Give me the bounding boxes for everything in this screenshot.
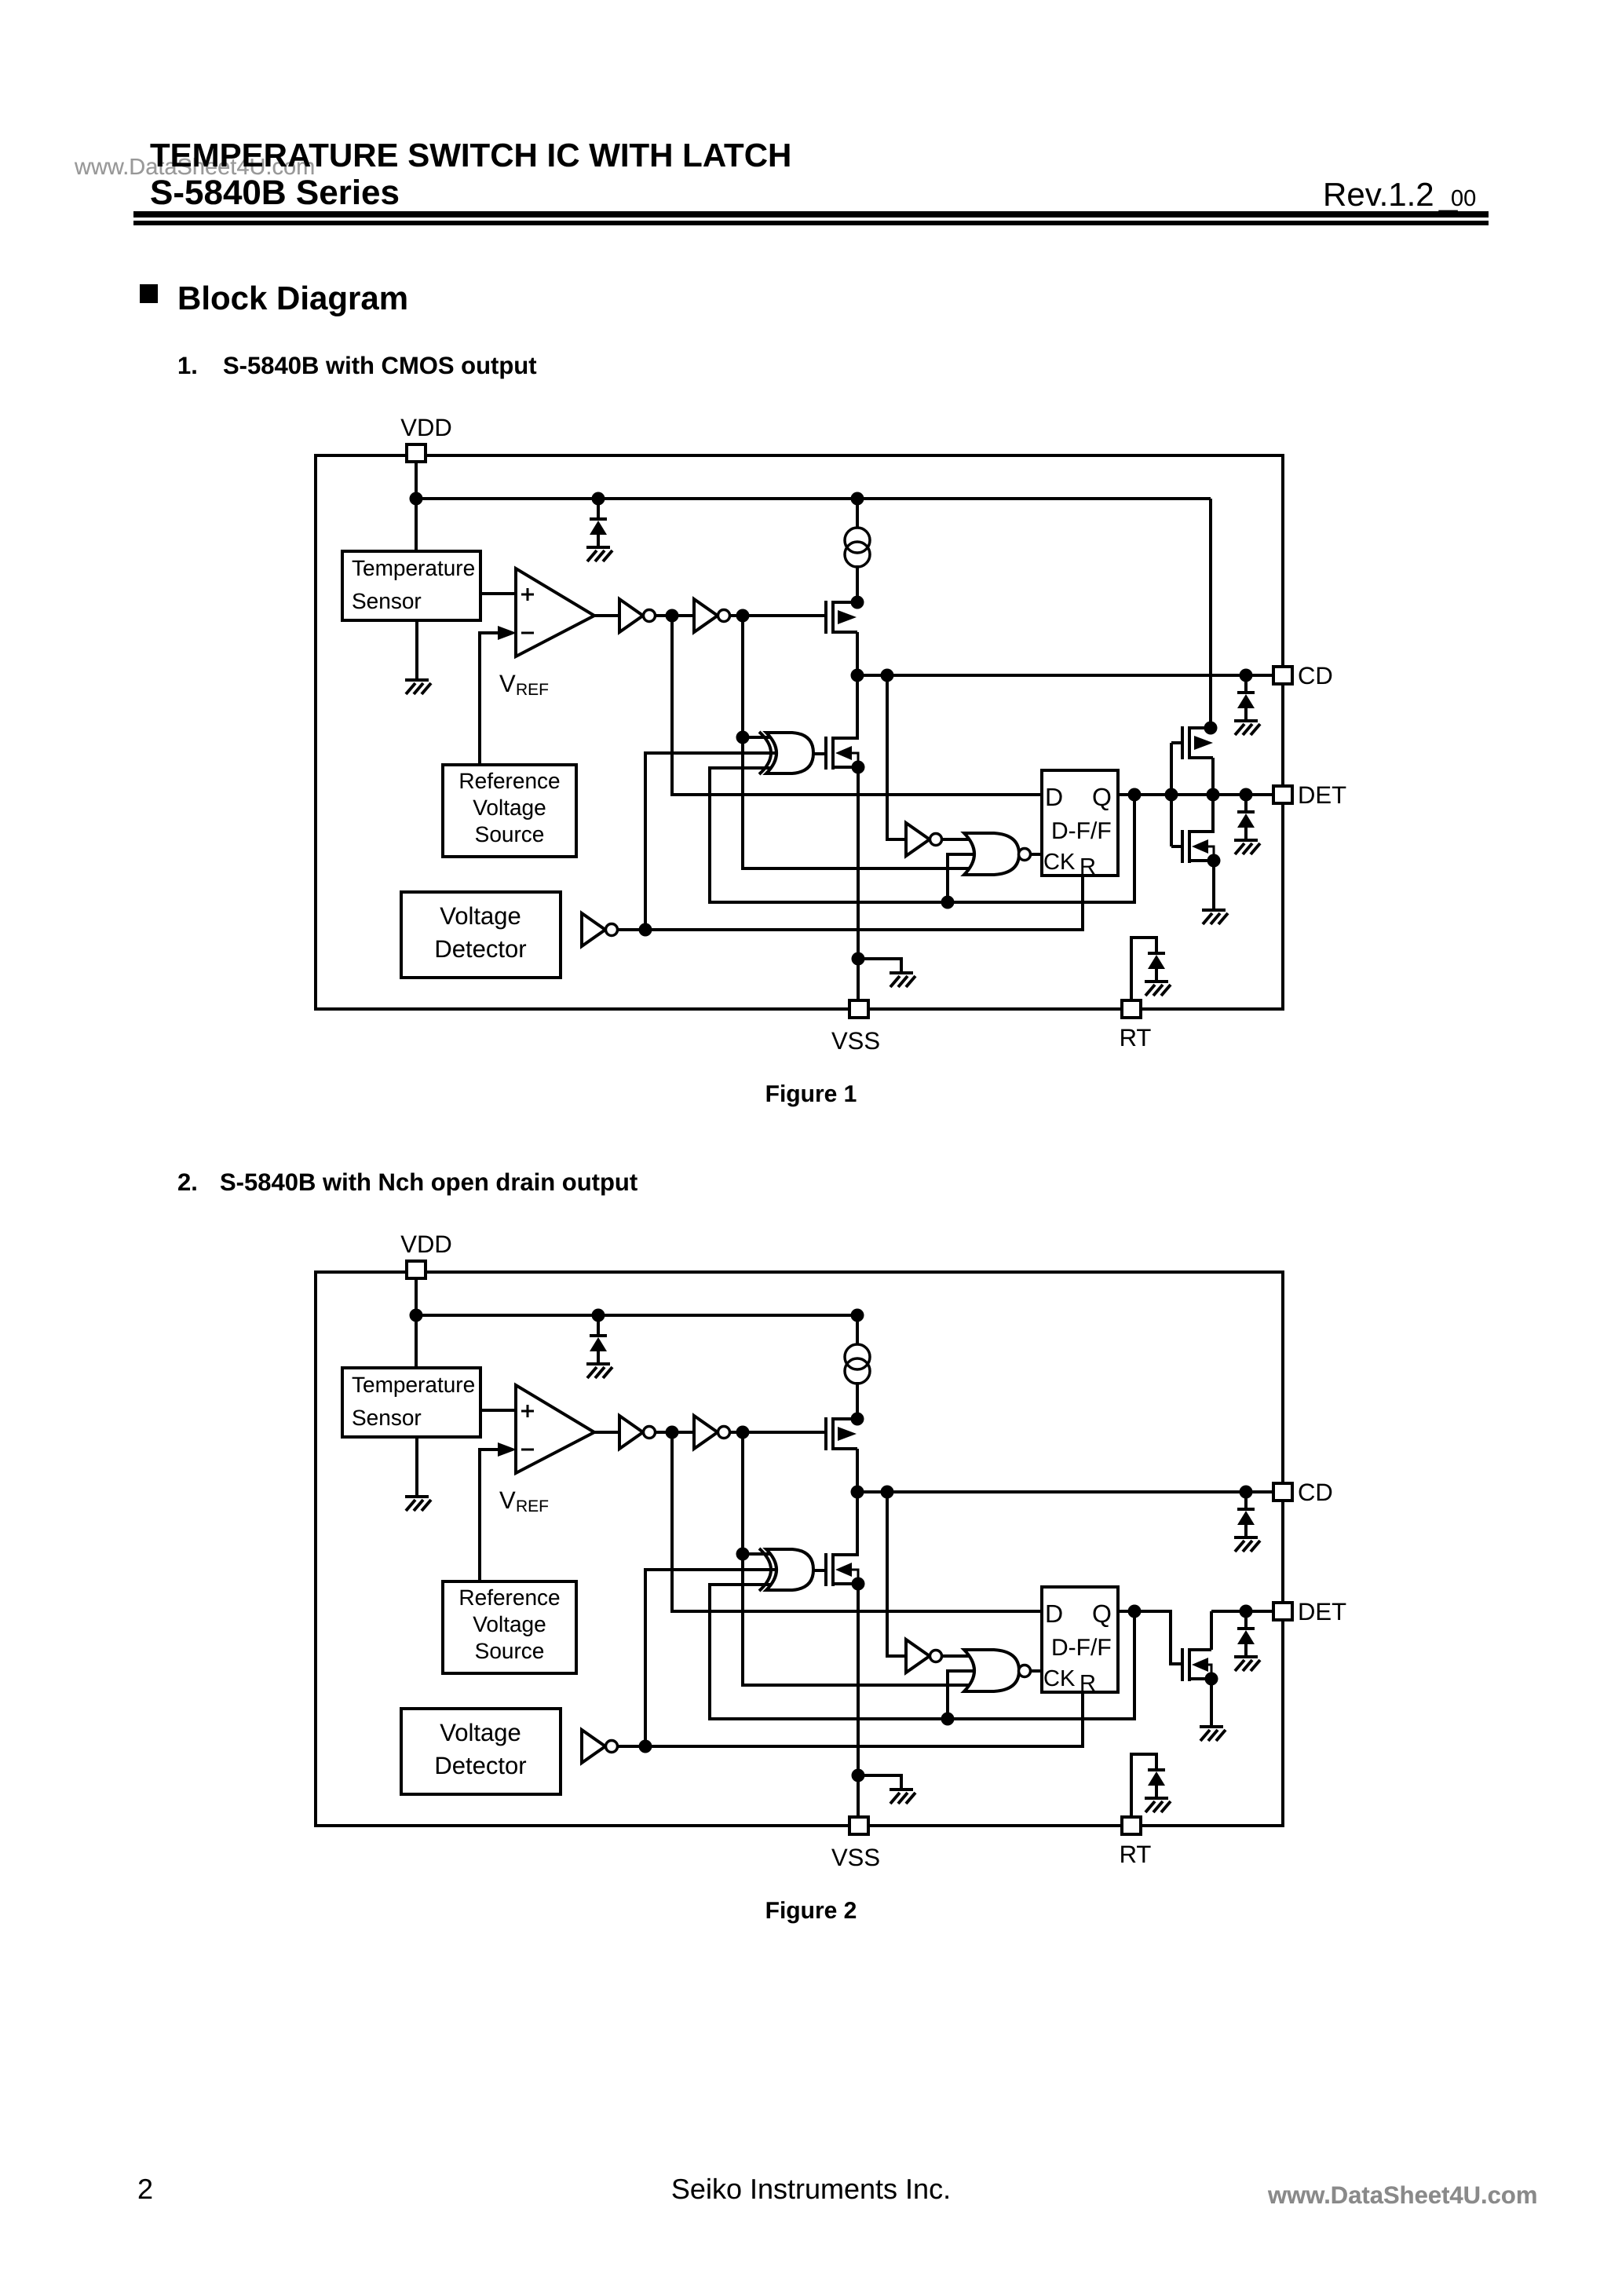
junction Q output feedback tap Fig.2 <box>1128 1605 1142 1618</box>
terminal DET Fig.1 <box>1273 786 1292 803</box>
svg-text:www.DataSheet4U.com: www.DataSheet4U.com <box>1267 2181 1537 2209</box>
inverter 1 Fig.1 <box>619 599 643 632</box>
svg-text:Detector: Detector <box>434 935 526 963</box>
svg-text:Voltage: Voltage <box>440 902 521 930</box>
junction Nch source body tie Fig.2 <box>852 1578 865 1591</box>
wire rail to current source Fig.2 <box>856 1315 859 1344</box>
svg-text:TEMPERATURE SWITCH IC WITH LAT: TEMPERATURE SWITCH IC WITH LATCH <box>150 137 791 174</box>
svg-text:Figure 1: Figure 1 <box>765 1081 857 1107</box>
CD protection diode Fig.1 <box>1237 691 1255 694</box>
wire XOR output to Nch gate Fig.1 <box>813 752 827 755</box>
svg-text:Sensor: Sensor <box>352 1406 422 1430</box>
svg-text:Voltage: Voltage <box>440 1719 521 1746</box>
Nch transistor (latch) Fig.2 <box>835 1553 857 1556</box>
svg-text:Rev.1.2: Rev.1.2 <box>1323 176 1434 213</box>
output Pch transistor Fig.1 <box>1191 726 1211 729</box>
svg-text:D: D <box>1045 783 1063 811</box>
XOR gate Fig.1 <box>759 732 771 774</box>
junction VDD stem to rail Fig.2 <box>410 1309 423 1322</box>
temperature sensor block Fig.1 <box>342 551 480 620</box>
wire node B down to inverter3 Fig.2 <box>887 1492 906 1656</box>
wire output Nch source to ground Fig.1 <box>1212 861 1215 910</box>
wire Nch source down to VSS Fig.2 <box>857 1583 860 1819</box>
comparator Fig.1 <box>516 569 594 656</box>
junction output gate tie Fig.1 <box>1165 788 1178 802</box>
wire temperature sensor ground stem Fig.2 <box>415 1437 418 1498</box>
svg-text:VSS: VSS <box>831 1844 880 1871</box>
current source Fig.2 <box>845 1344 870 1369</box>
svg-text:Temperature: Temperature <box>352 1373 475 1397</box>
inverter 1 Fig.2 <box>619 1416 643 1449</box>
voltage detector block Fig.2 <box>401 1709 561 1794</box>
wire voltage detector inverter to R input Fig.2 <box>616 1694 1083 1746</box>
output Nch ground Fig.1 <box>1202 909 1226 912</box>
wire VSS ground tap Fig.1 <box>858 959 901 974</box>
junction open drain source body tie Fig.2 <box>1205 1673 1218 1686</box>
junction rail to ESD diode Fig.2 <box>592 1309 605 1322</box>
junction VSS ground tap Fig.2 <box>852 1769 865 1782</box>
wire inverter2 node down XOR and NOR input Fig.1 <box>743 616 974 868</box>
Vref arrowhead Fig.1 <box>498 626 517 640</box>
wire rail to current source Fig.1 <box>856 499 859 528</box>
wire temperature sensor ground stem Fig.1 <box>415 620 418 682</box>
wire Nch drain up to CD rail Fig.2 <box>856 1492 859 1556</box>
wire DET diode stem Fig.2 <box>1244 1611 1248 1629</box>
comparator Fig.2 <box>516 1385 594 1473</box>
svg-text:2: 2 <box>137 2173 153 2205</box>
wire VDD top rail Fig.2 <box>416 1314 857 1317</box>
ground of VDD rail diode Fig.1 <box>586 546 610 549</box>
wire diode branch Fig.1 <box>597 499 600 519</box>
svg-text:R: R <box>1080 1671 1096 1696</box>
wire voltage detector inverter to R input Fig.1 <box>616 877 1083 930</box>
wire VSS ground tap Fig.2 <box>858 1775 901 1791</box>
VSS internal ground Fig.1 <box>890 971 913 974</box>
svg-text:Voltage: Voltage <box>473 1612 546 1636</box>
wire RT pullup branch Fig.2 <box>1131 1754 1156 1819</box>
wire Pch drain down to CD rail Fig.1 <box>856 632 859 677</box>
ground of CD diode Fig.2 <box>1234 1536 1258 1539</box>
svg-text:D-F/F: D-F/F <box>1051 818 1112 844</box>
junction Pch drain to CD rail Fig.2 <box>851 1486 864 1499</box>
junction inverter2 output node Fig.2 <box>736 1426 750 1439</box>
svg-text:Figure 2: Figure 2 <box>765 1898 857 1924</box>
junction XOR top input tap Fig.2 <box>736 1548 750 1561</box>
svg-text:DET: DET <box>1298 781 1346 809</box>
svg-text:RT: RT <box>1120 1841 1152 1868</box>
ground of RT diode Fig.1 <box>1145 980 1168 983</box>
svg-text:Block Diagram: Block Diagram <box>177 280 408 316</box>
svg-text:VSS: VSS <box>831 1027 880 1055</box>
svg-text:REF: REF <box>516 1497 549 1515</box>
junction rail to current source Fig.1 <box>851 492 864 506</box>
junction VDD stem to rail Fig.1 <box>410 492 423 506</box>
Vref arrowhead Fig.2 <box>498 1442 517 1457</box>
wire Pch drain down to CD rail Fig.2 <box>856 1449 859 1493</box>
temperature sensor ground Fig.2 <box>405 1495 429 1498</box>
junction inverter1 output node Fig.2 <box>666 1426 679 1439</box>
junction rail to current source Fig.2 <box>851 1309 864 1322</box>
svg-text:CD: CD <box>1298 662 1333 689</box>
XOR gate Fig.2 <box>759 1548 771 1591</box>
voltage detector output inverter Fig.2 <box>582 1730 605 1763</box>
wire XOR top input Fig.2 <box>743 1552 779 1556</box>
DET protection diode Fig.2 <box>1237 1627 1255 1630</box>
junction Pch source body tie Fig.1 <box>851 596 864 609</box>
DET protection diode Fig.1 <box>1237 810 1255 813</box>
D flip-flop block Fig.1 <box>1042 770 1118 876</box>
voltage detector output inverter Fig.1 <box>582 913 605 946</box>
wire Nch drain up to CD rail Fig.1 <box>856 675 859 740</box>
svg-text:00: 00 <box>1451 186 1476 211</box>
svg-text:DET: DET <box>1298 1598 1346 1625</box>
wire diode branch Fig.2 <box>597 1315 600 1336</box>
wire Q output Fig.1 <box>1118 793 1274 796</box>
terminal VSS Fig.2 <box>849 1817 868 1834</box>
wire VDD top rail Fig.1 <box>416 497 1211 500</box>
junction inverter1 output node Fig.1 <box>666 609 679 623</box>
wire NOR output to CK Fig.1 <box>1030 853 1042 856</box>
wire Q feedback to XOR bottom input Fig.2 <box>710 1585 1134 1719</box>
inverter 2 Fig.2 <box>694 1416 718 1449</box>
junction CD rail to inverter3 branch Fig.1 <box>881 669 894 682</box>
svg-text:Reference: Reference <box>458 1585 560 1610</box>
svg-text:Temperature: Temperature <box>352 556 475 580</box>
wire CD rail Fig.1 <box>857 674 1274 677</box>
Nch transistor (latch) Fig.1 <box>835 737 857 740</box>
wire inverter2 to Pch gate Fig.1 <box>727 614 827 617</box>
reference voltage source block Fig.2 <box>443 1581 576 1673</box>
inverter 3 Fig.2 <box>906 1640 930 1673</box>
svg-text:CK: CK <box>1043 1666 1076 1691</box>
junction XOR top input tap Fig.1 <box>736 731 750 744</box>
Pch transistor (bias) Fig.1 <box>835 601 857 604</box>
current source Fig.1 <box>845 528 870 553</box>
svg-text:Voltage: Voltage <box>473 795 546 820</box>
wire CD diode stem Fig.1 <box>1244 675 1248 693</box>
wire Q feedback to XOR bottom input Fig.1 <box>710 768 1134 902</box>
IC outline box Fig.1 <box>316 455 1283 1009</box>
terminal VDD Fig.1 <box>407 444 426 462</box>
wire Q output Fig.2 <box>1118 1611 1182 1664</box>
svg-text:CK: CK <box>1043 850 1076 875</box>
svg-text:R: R <box>1080 854 1096 879</box>
wire Nch source down to VSS Fig.1 <box>857 766 860 1002</box>
svg-text:Source: Source <box>475 822 545 846</box>
voltage detector block Fig.1 <box>401 892 561 978</box>
svg-text:S-5840B with CMOS output: S-5840B with CMOS output <box>223 352 537 379</box>
svg-text:VDD: VDD <box>400 1230 451 1258</box>
wire CD diode stem Fig.2 <box>1244 1492 1248 1509</box>
svg-text:Detector: Detector <box>434 1752 526 1779</box>
ground of CD diode Fig.1 <box>1234 719 1258 722</box>
junction Pch drain to CD rail Fig.1 <box>851 669 864 682</box>
wire VDD stem Fig.2 <box>415 1278 418 1369</box>
wire CD rail Fig.2 <box>857 1490 1274 1493</box>
NOR gate Fig.1 <box>964 833 1019 875</box>
wire DET diode stem Fig.1 <box>1244 795 1248 812</box>
output Nch transistor Fig.1 <box>1191 830 1213 833</box>
terminal VDD Fig.2 <box>407 1261 426 1278</box>
svg-text:S-5840B Series: S-5840B Series <box>150 174 400 212</box>
terminal VSS Fig.1 <box>849 1000 868 1018</box>
terminal RT Fig.1 <box>1122 1000 1141 1018</box>
wire current source to Pch transistor Fig.1 <box>856 565 859 604</box>
wire Nch open-drain to DET Fig.2 <box>1211 1610 1274 1613</box>
IC outline box Fig.2 <box>316 1272 1283 1826</box>
wire voltage detector signal to XOR mid input Fig.2 <box>645 1570 779 1746</box>
junction CD rail to inverter3 branch Fig.2 <box>881 1486 894 1499</box>
wire inverter3 to NOR top input Fig.1 <box>942 838 974 841</box>
wire inverter2 node down XOR and NOR input Fig.2 <box>743 1432 974 1685</box>
svg-text:VDD: VDD <box>400 414 451 441</box>
wire inverter2 to Pch gate Fig.2 <box>727 1431 827 1434</box>
wire Vref to comparator - input Fig.2 <box>480 1450 498 1583</box>
junction output drain node Fig.1 <box>1207 788 1220 802</box>
svg-text:Source: Source <box>475 1639 545 1663</box>
reference voltage source block Fig.1 <box>443 765 576 857</box>
wire Vref to comparator - input Fig.1 <box>480 633 498 766</box>
section heading Block Diagram <box>140 284 158 303</box>
open drain Nch transistor Fig.2 <box>1190 1648 1211 1651</box>
junction CD diode tap Fig.2 <box>1240 1486 1253 1499</box>
temperature sensor block Fig.2 <box>342 1368 480 1437</box>
wire node B down to inverter3 Fig.1 <box>887 675 906 839</box>
svg-text:REF: REF <box>516 681 549 699</box>
svg-text:RT: RT <box>1120 1024 1152 1051</box>
temperature sensor ground Fig.1 <box>405 678 429 682</box>
junction rail to ESD diode Fig.1 <box>592 492 605 506</box>
RT diode Fig.1 <box>1148 952 1165 955</box>
junction Q feedback to NOR branch Fig.2 <box>941 1713 955 1726</box>
svg-text:Q: Q <box>1092 783 1112 811</box>
wire output gate line Fig.1 <box>1170 743 1173 846</box>
ground of VDD rail diode Fig.2 <box>586 1362 610 1366</box>
terminal RT Fig.2 <box>1122 1817 1141 1834</box>
svg-text:D-F/F: D-F/F <box>1051 1635 1112 1661</box>
ground of DET diode Fig.2 <box>1234 1655 1258 1658</box>
ground of DET diode Fig.1 <box>1234 839 1258 842</box>
wire NOR output to CK Fig.2 <box>1030 1669 1042 1673</box>
wire inverter1 node down to D input Fig.2 <box>672 1432 1042 1611</box>
svg-text:CD: CD <box>1298 1479 1333 1506</box>
wire RT pullup branch Fig.1 <box>1131 938 1156 1002</box>
ESD diode at VDD rail Fig.2 <box>590 1334 607 1337</box>
terminal CD Fig.2 <box>1273 1483 1292 1501</box>
junction power-on-reset node Fig.2 <box>639 1740 652 1753</box>
wire VDD rail down to Pch source Fig.1 <box>1209 499 1212 729</box>
svg-text:D: D <box>1045 1600 1063 1628</box>
wire inverter3 to NOR top input Fig.2 <box>942 1654 974 1658</box>
inverter 3 Fig.1 <box>906 823 930 856</box>
ESD diode at VDD rail Fig.1 <box>590 517 607 521</box>
wire XOR top input Fig.1 <box>743 736 779 739</box>
terminal CD Fig.1 <box>1273 667 1292 684</box>
junction DET diode tap Fig.1 <box>1240 788 1253 802</box>
header double rule <box>133 211 1489 218</box>
junction output Nch source body tie Fig.1 <box>1207 854 1221 868</box>
svg-text:1.: 1. <box>177 352 198 379</box>
svg-text:Seiko Instruments Inc.: Seiko Instruments Inc. <box>671 2173 951 2205</box>
wire VDD stem Fig.1 <box>415 462 418 553</box>
junction power-on-reset node Fig.1 <box>639 923 652 937</box>
inverter 2 Fig.1 <box>694 599 718 632</box>
junction Pch source body tie Fig.2 <box>851 1413 864 1426</box>
junction Q output feedback tap Fig.1 <box>1128 788 1142 802</box>
RT diode Fig.2 <box>1148 1768 1165 1771</box>
D flip-flop block Fig.2 <box>1042 1587 1118 1692</box>
ground of RT diode Fig.2 <box>1145 1797 1168 1800</box>
junction CD diode tap Fig.1 <box>1240 669 1253 682</box>
wire comparator output chain Fig.2 <box>593 1431 619 1434</box>
wire temperature sensor to comparator + input Fig.2 <box>480 1409 518 1412</box>
junction output Pch source body tie Fig.1 <box>1204 722 1218 735</box>
wire current source to Pch transistor Fig.2 <box>856 1382 859 1420</box>
wire voltage detector signal to XOR mid input Fig.1 <box>645 753 779 930</box>
Pch transistor (bias) Fig.2 <box>835 1417 857 1420</box>
svg-text:Q: Q <box>1092 1600 1112 1628</box>
wire Q feedback to NOR mid input Fig.1 <box>948 854 974 902</box>
CD protection diode Fig.2 <box>1237 1508 1255 1511</box>
junction VSS ground tap Fig.1 <box>852 952 865 966</box>
wire temperature sensor to comparator + input Fig.1 <box>480 592 518 595</box>
open drain Nch ground Fig.2 <box>1200 1725 1223 1728</box>
svg-text:S-5840B with Nch open drain ou: S-5840B with Nch open drain output <box>220 1168 637 1196</box>
NOR gate Fig.2 <box>964 1650 1019 1691</box>
junction inverter2 output node Fig.1 <box>736 609 750 623</box>
terminal DET Fig.2 <box>1273 1603 1292 1620</box>
wire inverter1 node down to D input Fig.1 <box>672 616 1042 795</box>
svg-text:Reference: Reference <box>458 769 560 793</box>
wire Q feedback to NOR mid input Fig.2 <box>948 1671 974 1719</box>
svg-text:V: V <box>499 1486 516 1514</box>
junction DET diode tap Fig.2 <box>1240 1605 1253 1618</box>
svg-text:V: V <box>499 670 516 697</box>
svg-text:2.: 2. <box>177 1168 198 1196</box>
junction Nch source body tie Fig.1 <box>852 761 865 774</box>
svg-text:Sensor: Sensor <box>352 589 422 613</box>
VSS internal ground Fig.2 <box>890 1788 913 1791</box>
wire comparator output chain Fig.1 <box>593 614 619 617</box>
wire XOR output to Nch gate Fig.2 <box>813 1569 827 1572</box>
wire output Pch drain to DET Fig.1 <box>1211 758 1215 833</box>
junction Q feedback to NOR branch Fig.1 <box>941 896 955 909</box>
